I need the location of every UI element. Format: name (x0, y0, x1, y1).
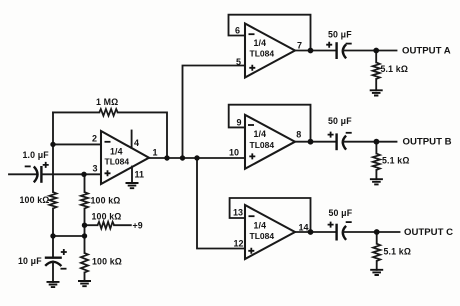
svg-text:1/4: 1/4 (110, 147, 123, 157)
svg-text:OUTPUT C: OUTPUT C (404, 227, 453, 238)
svg-text:1.0 μF: 1.0 μF (23, 150, 50, 160)
svg-text:1: 1 (153, 148, 158, 158)
svg-text:2: 2 (92, 134, 97, 144)
svg-text:5.1 kΩ: 5.1 kΩ (381, 64, 409, 74)
svg-text:TL084: TL084 (105, 156, 130, 166)
svg-text:100 kΩ: 100 kΩ (92, 257, 122, 267)
svg-text:100 kΩ: 100 kΩ (91, 196, 121, 206)
svg-text:4: 4 (134, 138, 139, 148)
svg-text:5.1 kΩ: 5.1 kΩ (384, 246, 412, 256)
svg-text:1/4: 1/4 (254, 38, 267, 48)
svg-text:11: 11 (135, 170, 145, 180)
svg-text:100 kΩ: 100 kΩ (20, 195, 50, 205)
svg-text:6: 6 (235, 26, 240, 36)
svg-text:OUTPUT B: OUTPUT B (403, 137, 452, 148)
svg-text:OUTPUT A: OUTPUT A (402, 46, 451, 57)
svg-text:TL084: TL084 (250, 231, 275, 241)
svg-text:1/4: 1/4 (254, 220, 267, 230)
svg-text:1 MΩ: 1 MΩ (96, 97, 118, 107)
svg-text:14: 14 (299, 223, 309, 233)
svg-text:3: 3 (93, 164, 98, 174)
svg-text:50 μF: 50 μF (328, 116, 352, 126)
svg-text:50 μF: 50 μF (329, 208, 353, 218)
svg-text:50 μF: 50 μF (328, 29, 352, 39)
svg-text:TL084: TL084 (250, 140, 275, 150)
svg-text:13: 13 (233, 208, 243, 218)
svg-text:7: 7 (297, 41, 302, 51)
svg-text:100 kΩ: 100 kΩ (92, 212, 122, 222)
svg-text:1/4: 1/4 (254, 129, 267, 139)
svg-text:5.1 kΩ: 5.1 kΩ (382, 156, 410, 166)
svg-text:+9: +9 (133, 221, 143, 231)
svg-text:12: 12 (234, 239, 244, 249)
svg-text:9: 9 (237, 118, 242, 128)
svg-text:8: 8 (296, 129, 301, 139)
svg-text:5: 5 (236, 57, 241, 67)
svg-text:TL084: TL084 (250, 49, 275, 59)
svg-text:10 μF: 10 μF (18, 256, 42, 266)
svg-text:10: 10 (229, 148, 239, 158)
